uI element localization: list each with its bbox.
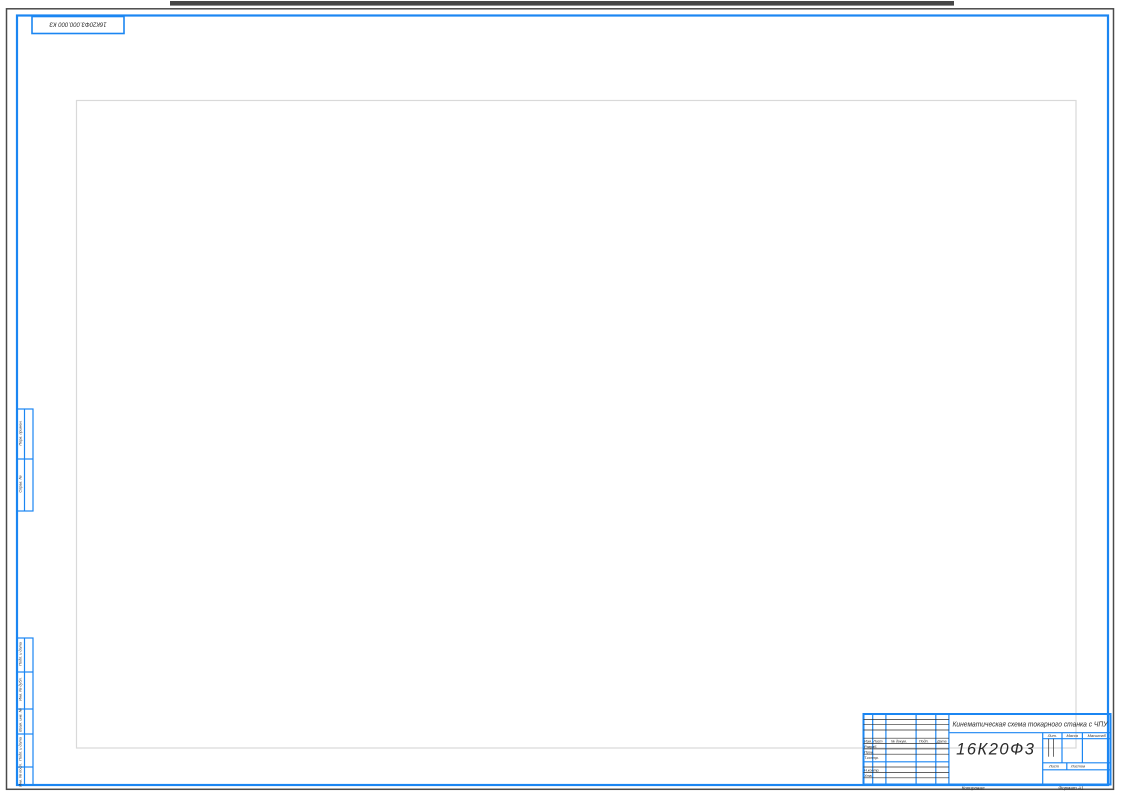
left margin stamp group 1 box bbox=[17, 409, 33, 511]
svg-text:Масса: Масса bbox=[1066, 733, 1078, 738]
title block Lit Massa Masshtab texts bbox=[1047, 733, 1107, 769]
svg-text:Н.контр.: Н.контр. bbox=[864, 769, 879, 773]
drawing area light gray rectangle bbox=[77, 101, 1077, 749]
title block right header verticals bbox=[1062, 733, 1082, 763]
svg-text:Формат А1: Формат А1 bbox=[1058, 786, 1084, 791]
svg-text:Изм.: Изм. bbox=[864, 740, 872, 744]
svg-text:Инв. № дубл.: Инв. № дубл. bbox=[19, 677, 23, 700]
svg-text:Лист: Лист bbox=[1048, 764, 1060, 769]
svg-text:Подп. и дата: Подп. и дата bbox=[19, 737, 23, 761]
svg-text:Пров.: Пров. bbox=[864, 750, 873, 754]
title block left section black row lines bbox=[864, 719, 949, 777]
title block Лист/Листов row divider bbox=[1043, 763, 1111, 770]
title block header tiny texts bbox=[864, 740, 946, 778]
top-left corner designation box bbox=[32, 17, 124, 34]
svg-text:Лит.: Лит. bbox=[1047, 733, 1057, 738]
svg-text:Лист: Лист bbox=[872, 740, 882, 744]
title block Lit cell black bars bbox=[1049, 739, 1054, 757]
svg-text:Т.контр.: Т.контр. bbox=[864, 756, 879, 760]
svg-text:№ докум.: № докум. bbox=[891, 740, 907, 744]
top black bar bbox=[170, 1, 954, 6]
title block main vertical dividers bbox=[949, 714, 1043, 785]
svg-text:Копировал: Копировал bbox=[962, 786, 985, 791]
svg-text:Взам. инв. №: Взам. инв. № bbox=[19, 708, 23, 731]
svg-text:Подп. и дата: Подп. и дата bbox=[19, 642, 23, 666]
title block blue horizontals bbox=[864, 733, 1112, 763]
title block right header horizontal bbox=[1043, 738, 1111, 740]
svg-text:16К20Ф3.000.000 КЗ: 16К20Ф3.000.000 КЗ bbox=[49, 21, 107, 27]
svg-text:Перв. примен.: Перв. примен. bbox=[19, 420, 23, 445]
svg-text:Справ. №: Справ. № bbox=[19, 475, 23, 492]
svg-text:16К20Ф3: 16К20Ф3 bbox=[956, 741, 1035, 759]
title block left section blue verticals bbox=[873, 714, 936, 785]
svg-text:Инв. № подл.: Инв. № подл. bbox=[19, 763, 23, 787]
svg-text:Дата: Дата bbox=[936, 740, 946, 744]
svg-text:Разраб.: Разраб. bbox=[864, 745, 877, 749]
svg-text:Утв.: Утв. bbox=[864, 774, 872, 778]
title block outer border bbox=[864, 714, 1111, 785]
svg-text:Листов: Листов bbox=[1070, 764, 1085, 769]
svg-text:Масштаб: Масштаб bbox=[1088, 733, 1107, 738]
left margin stamp group 2 box bbox=[17, 638, 33, 785]
svg-text:Кинематическая схема токарного: Кинематическая схема токарного станка с … bbox=[953, 720, 1109, 729]
svg-text:Подп.: Подп. bbox=[919, 740, 929, 744]
